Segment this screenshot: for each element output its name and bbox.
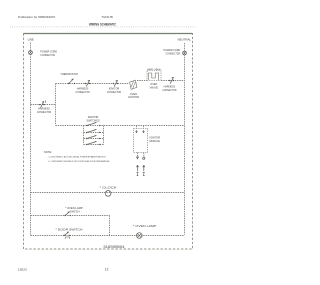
svg-text:VALVE: VALVE [150,85,158,89]
ignitor switches ladder rails [84,126,104,145]
wire row2 ignitor switch row [56,125,185,127]
svg-text:Publication for 5995343070: Publication for 5995343070 [18,15,56,19]
border top edge solid [24,33,193,35]
svg-text:* DOOR SWITCH: * DOOR SWITCH [56,227,83,231]
oven lamp switch [64,212,71,217]
module output terminal left [137,157,139,159]
wire row3 clock row [31,192,185,194]
oven valve box [147,71,161,81]
svg-text:TGF317B: TGF317B [101,15,112,19]
svg-text:12: 12 [105,268,109,272]
spark electrode E2 [143,165,145,176]
dotted rule under title [10,26,196,28]
svg-text:LINE: LINE [28,38,34,42]
wire row4 drop to row5 [109,216,111,236]
svg-text:THERMOSTAT: THERMOSTAT [60,72,78,76]
module output terminal right [143,157,145,159]
wire branch vertical x55 [55,84,57,126]
svg-text:SAFETY VALVE: SAFETY VALVE [147,68,161,71]
wire row1 left segment [56,83,129,85]
svg-text:316905504: 316905504 [103,245,124,249]
wire harness branch from L1 [31,104,56,106]
svg-text:SWITCH: SWITCH [70,209,80,213]
svg-text:CONNECTOR: CONNECTOR [76,90,90,94]
oven valve coil element [148,73,158,80]
svg-text:b. COMPONENTS SHOWN IN OFF POS: b. COMPONENTS SHOWN IN OFF POSITION AT R… [49,160,111,163]
svg-text:CONNECTOR: CONNECTOR [166,52,181,56]
schematic border frame [24,34,193,250]
connector J2 harness connector [85,80,91,86]
spark electrode E1 [136,165,138,176]
wire NEUTRAL vertical [184,43,186,235]
ignitor module bottom stubs [138,153,144,157]
svg-text:CONNECTOR: CONNECTOR [107,90,121,94]
wire L1 vertical [30,43,32,237]
oven lamp L1 [137,233,143,239]
connector J4 harness connector [169,77,175,83]
svg-text:IGNITOR: IGNITOR [128,95,139,99]
svg-text:SWITCHES: SWITCHES [87,118,100,122]
svg-text:13023: 13023 [18,267,27,271]
svg-text:CONNECTOR: CONNECTOR [162,88,176,92]
svg-text:WIRING SCHEMATIC: WIRING SCHEMATIC [89,23,116,27]
svg-text:a. DISCONNECT ALL ELECTRICAL P: a. DISCONNECT ALL ELECTRICAL POWER AT MA… [49,156,107,159]
ignitor module U1 box [134,129,148,153]
ignitor switch SW2 [86,130,100,134]
svg-text:NOTE:: NOTE: [44,150,52,154]
ignitor switch SW4 [86,142,100,146]
connector P2 power cord connector (right) [183,51,187,55]
svg-text:* OVEN LAMP: * OVEN LAMP [133,224,156,228]
svg-text:CONNECTOR: CONNECTOR [37,110,51,114]
thermostat switch [68,79,75,84]
ignitor module top stubs [137,126,144,129]
ignitor module input pins [136,130,145,133]
connector J1 harness connector [39,100,46,107]
oven ignitor (hatched) [130,80,137,89]
clock motor M1 [105,191,111,197]
svg-text:NEUTRAL: NEUTRAL [178,38,192,42]
ignitor switch SW1 [86,123,100,127]
wire row5 door switch / lamp row [31,235,185,237]
svg-text:* CLOCK: * CLOCK [100,186,117,190]
connector P1 power cord connector (left) [29,51,33,55]
wire row1 segment ignitor to valve [137,80,147,82]
svg-text:MODULE: MODULE [150,139,160,143]
svg-text:CONNECTOR: CONNECTOR [40,53,55,57]
door switch [63,232,70,239]
connector J3 ignitor connector [113,80,119,86]
ignitor switch SW3 [86,136,100,140]
wire row1 right segment [161,80,185,82]
wire row4 oven lamp switch row [31,215,110,217]
